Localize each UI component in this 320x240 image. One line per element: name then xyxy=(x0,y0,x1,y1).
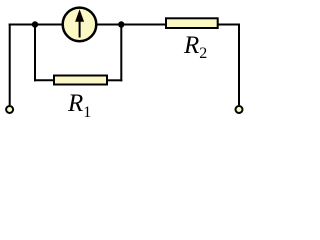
wire right vertical xyxy=(238,24,240,106)
current source I1 xyxy=(63,8,97,42)
node A junction dot xyxy=(32,21,38,27)
resistor R1 xyxy=(54,76,107,85)
terminal left xyxy=(6,106,13,113)
wire R2 to right corner xyxy=(218,24,240,26)
wire stub to R1 right xyxy=(107,79,122,81)
wire left vertical xyxy=(9,24,11,106)
wire top-left horizontal xyxy=(9,24,63,26)
svg-text:R1: R1 xyxy=(67,90,91,121)
node B junction dot xyxy=(118,21,124,27)
wire from node B down to R1 right xyxy=(120,25,122,82)
resistor R2 xyxy=(166,18,218,28)
wire current source to R2 xyxy=(96,24,166,26)
terminal right xyxy=(236,106,243,113)
wire stub to R1 left xyxy=(34,79,54,81)
svg-text:R2: R2 xyxy=(183,32,207,62)
wire from node A down to R1 left xyxy=(34,25,36,82)
current source arrow xyxy=(79,19,81,38)
